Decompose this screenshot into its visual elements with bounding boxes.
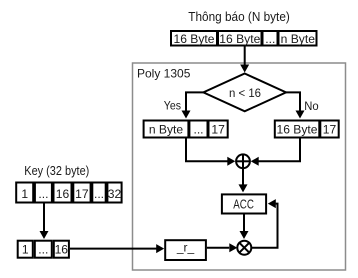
svg-text:Key (32 byte): Key (32 byte) (24, 163, 89, 178)
svg-text:32: 32 (108, 187, 122, 201)
Poly 1305 container box (133, 63, 346, 270)
wire key half row to r box (70, 244, 164, 253)
svg-text:n Byte: n Byte (149, 123, 184, 137)
svg-text:Poly 1305: Poly 1305 (137, 67, 191, 81)
key row cell "16" (54, 183, 72, 203)
svg-text:_r_: _r_ (176, 241, 195, 255)
message row cell "..." (263, 31, 278, 46)
XOR node (circle plus) (236, 154, 250, 168)
key row cell "..." #2 (92, 183, 105, 203)
left block cell "17" (209, 121, 228, 138)
svg-text:Yes: Yes (164, 99, 181, 113)
svg-text:1: 1 (22, 243, 29, 257)
svg-text:n < 16: n < 16 (229, 86, 261, 100)
svg-text:Thông báo (N byte): Thông báo (N byte) (188, 9, 289, 24)
message row cell "16 Byte" #2 (218, 31, 262, 46)
key row cell "..." #1 (35, 183, 52, 203)
svg-text:n Byte: n Byte (281, 32, 316, 46)
wire key row to key half row (40, 204, 49, 240)
svg-text:...: ... (38, 243, 48, 257)
key half row cell "..." (35, 241, 52, 258)
wire XOR to ACC (239, 168, 248, 192)
svg-text:16: 16 (55, 243, 69, 257)
right block cell "16 Byte" (275, 121, 320, 138)
left block cell "..." (189, 121, 207, 138)
svg-text:...: ... (265, 32, 275, 46)
feedback wire MUL to ACC (252, 199, 278, 248)
wire r box to MUL (207, 243, 237, 252)
key half row cell "16" (54, 241, 69, 258)
wire No branch (286, 92, 305, 118)
svg-text:1: 1 (21, 187, 28, 201)
wire Yes branch (182, 92, 204, 118)
svg-text:...: ... (38, 187, 48, 201)
key row cell "1" (16, 183, 33, 203)
key row cell "17" (73, 183, 90, 203)
decision diamond "n &lt; 16" (203, 74, 286, 112)
svg-text:17: 17 (323, 123, 337, 137)
svg-text:17: 17 (75, 187, 89, 201)
svg-text:No: No (304, 99, 319, 113)
wire right block to XOR (251, 139, 300, 166)
left block cell "n Byte" (144, 121, 189, 138)
message row cell "16 Byte" #1 (171, 31, 217, 46)
svg-text:16 Byte: 16 Byte (219, 32, 260, 46)
svg-text:16 Byte: 16 Byte (276, 123, 317, 137)
message row cell "n Byte" (279, 31, 317, 46)
wire left block to XOR (186, 139, 235, 166)
svg-text:16: 16 (56, 187, 70, 201)
register box ACC (222, 194, 266, 213)
wire ACC to MUL (240, 214, 249, 239)
key half row cell "1" (18, 241, 33, 258)
key row cell "32" (107, 183, 121, 203)
right block cell "17" (320, 121, 338, 138)
svg-text:ACC: ACC (233, 197, 254, 211)
wire message row to diamond (240, 47, 249, 73)
svg-text:...: ... (94, 187, 104, 201)
MUL node (circle times) (237, 241, 251, 255)
r box "_r_" (165, 240, 206, 260)
svg-text:16 Byte: 16 Byte (173, 32, 214, 46)
svg-text:17: 17 (211, 123, 225, 137)
svg-text:...: ... (193, 123, 203, 137)
